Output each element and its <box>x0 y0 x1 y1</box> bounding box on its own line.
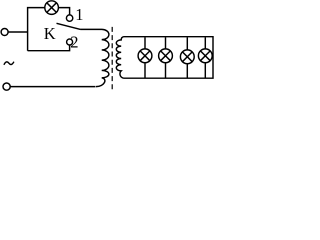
svg-text:1: 1 <box>75 5 83 24</box>
svg-text:K: K <box>44 24 56 43</box>
svg-text:2: 2 <box>70 33 78 52</box>
